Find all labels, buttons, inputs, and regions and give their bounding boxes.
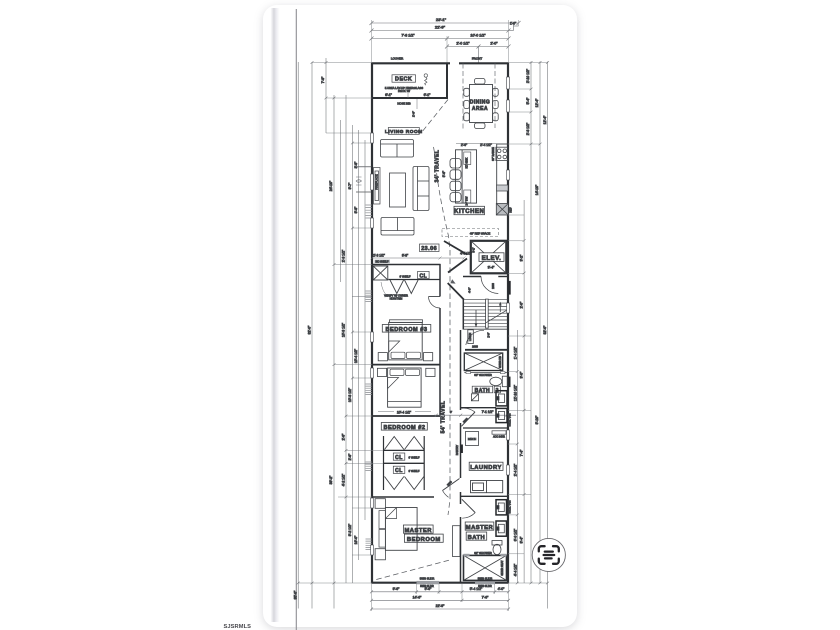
svg-text:12'-4": 12'-4" xyxy=(535,98,539,107)
wall above bath2 shower xyxy=(465,349,508,351)
left dim tick marks xyxy=(297,61,354,584)
svg-text:23.06: 23.06 xyxy=(421,246,437,252)
hall dim line at 258 xyxy=(371,257,466,260)
laundry label box xyxy=(469,462,503,470)
kitchen counter right xyxy=(496,144,498,215)
svg-text:2'-4 1/2": 2'-4 1/2" xyxy=(514,463,518,476)
svg-text:2668: 2668 xyxy=(462,416,469,423)
svg-text:7'-9": 7'-9" xyxy=(321,76,325,84)
sliding door fills on bottom wall xyxy=(417,581,440,584)
svg-text:60" SHOWER: 60" SHOWER xyxy=(474,373,491,377)
svg-text:2'-10 1/2": 2'-10 1/2" xyxy=(526,68,530,83)
svg-text:4'-0": 4'-0" xyxy=(468,287,472,293)
svg-text:23'-1": 23'-1" xyxy=(436,17,447,22)
ref space dashed xyxy=(442,229,499,237)
elevator entry chamfer walls xyxy=(444,241,467,273)
svg-text:BEDROOM #2: BEDROOM #2 xyxy=(384,425,426,431)
bedroom2 label box xyxy=(381,423,427,431)
bedroom3 door arc xyxy=(429,297,441,309)
svg-text:LOUVER: LOUVER xyxy=(391,57,404,61)
svg-text:MASTER: MASTER xyxy=(404,528,432,534)
svg-text:8'-8": 8'-8" xyxy=(402,254,408,258)
linen closet xyxy=(468,330,474,344)
travel arrow head xyxy=(450,279,455,283)
svg-text:30" RANGE: 30" RANGE xyxy=(491,147,495,161)
svg-text:2'-0": 2'-0" xyxy=(520,301,524,309)
laundry bottom wall xyxy=(461,495,509,497)
svg-text:82'-0": 82'-0" xyxy=(308,325,312,334)
svg-text:BATH: BATH xyxy=(475,388,491,394)
bed3 nightstands xyxy=(378,353,387,361)
dining chairs left xyxy=(464,88,470,96)
dining area dashed window wall left xyxy=(462,64,464,131)
elevator room walls xyxy=(471,241,507,273)
bed2 pillows xyxy=(390,369,404,375)
stair hall left wall xyxy=(462,299,464,330)
svg-text:5050 SLDR: 5050 SLDR xyxy=(478,584,492,588)
svg-text:LAUNDRY: LAUNDRY xyxy=(470,465,502,471)
travel dashed diagonal to master door xyxy=(376,560,449,579)
svg-text:DECK: DECK xyxy=(395,77,412,83)
svg-text:24" DW: 24" DW xyxy=(465,196,469,205)
svg-text:2668: 2668 xyxy=(472,345,478,349)
closet back wall xyxy=(388,279,440,281)
svg-text:2'-6": 2'-6" xyxy=(412,111,416,117)
svg-text:22'-9": 22'-9" xyxy=(436,604,445,608)
master bed fold xyxy=(385,508,396,519)
svg-text:5050 SLDR: 5050 SLDR xyxy=(420,584,434,588)
stair down arrow xyxy=(475,310,477,327)
deck bottom wall xyxy=(372,97,448,99)
svg-text:FRONT: FRONT xyxy=(472,57,482,61)
CL label box (hall closet) xyxy=(418,271,430,278)
leader line from shower box to note xyxy=(381,282,387,296)
23.06 label box xyxy=(420,244,440,252)
hall door arc to stairs xyxy=(481,276,498,293)
master dresser on corridor wall xyxy=(453,526,461,557)
media console left wall xyxy=(374,168,381,205)
svg-text:SHWR HD: SHWR HD xyxy=(499,356,502,368)
svg-text:AREA: AREA xyxy=(472,106,488,112)
svg-text:14'-10": 14'-10" xyxy=(535,184,539,195)
svg-text:BATH: BATH xyxy=(468,535,486,541)
svg-text:8'-10": 8'-10" xyxy=(535,415,539,424)
master bed nightstand bottom xyxy=(375,549,385,560)
kitchen label box xyxy=(454,206,485,214)
fridge xyxy=(496,204,508,216)
svg-text:39'-2": 39'-2" xyxy=(329,475,333,484)
master bath door arc xyxy=(462,499,475,512)
wall bed3/bed2 xyxy=(372,364,441,366)
bath2 shower xyxy=(464,353,502,371)
master bath vanity 2 xyxy=(496,521,507,536)
bed2 footline xyxy=(388,401,422,403)
master toilet xyxy=(492,541,502,555)
shower top wall stubs xyxy=(464,554,470,557)
svg-text:4'-4 1/2": 4'-4 1/2" xyxy=(514,563,518,576)
svg-text:12'-10 1/2": 12'-10 1/2" xyxy=(514,384,518,401)
top dimension line 23'-1" xyxy=(370,21,521,25)
top dimension line 2'-0 1/2" / 2'-0" xyxy=(445,45,511,63)
svg-text:3'-2": 3'-2" xyxy=(472,247,476,252)
svg-text:BEDROOM: BEDROOM xyxy=(407,537,441,543)
stair treads (horizontal) xyxy=(464,300,508,327)
sofa right xyxy=(413,167,429,211)
sheet border line xyxy=(295,9,297,630)
dining area dashed window wall right xyxy=(494,64,496,129)
ladder window ticks outside left wall xyxy=(366,205,373,550)
bed2 nightstands xyxy=(377,368,386,376)
dining chairs right xyxy=(493,88,499,96)
window symbols on left wall xyxy=(371,133,374,555)
svg-text:2'-8 1/2": 2'-8 1/2" xyxy=(526,122,530,135)
svg-text:6'-0 1/2": 6'-0 1/2" xyxy=(514,528,518,541)
island dw box xyxy=(464,190,471,203)
scan fold shadow band xyxy=(271,8,280,622)
svg-text:3'-4": 3'-4" xyxy=(488,266,496,270)
corridor dim line xyxy=(434,414,516,417)
svg-text:9'-2 1/2": 9'-2 1/2" xyxy=(348,523,352,536)
elevator X xyxy=(471,241,507,273)
bed3 fold xyxy=(389,341,400,352)
dining table xyxy=(470,85,493,123)
range xyxy=(496,147,508,160)
top dimension line 22'-9" xyxy=(370,23,519,33)
svg-text:ACC 24HR: ACC 24HR xyxy=(493,436,505,439)
svg-text:6' SHELF: 6' SHELF xyxy=(399,275,410,279)
svg-text:10'-4 1/2": 10'-4 1/2" xyxy=(354,348,358,363)
svg-text:NO SHELF: NO SHELF xyxy=(376,259,389,263)
svg-text:7'-4": 7'-4" xyxy=(520,449,524,457)
right dim tick marks xyxy=(516,61,549,584)
fireplace squiggle outside left wall xyxy=(356,177,362,185)
svg-text:1'-4 1/2": 1'-4 1/2" xyxy=(514,346,518,359)
corridor angled wall to stairs xyxy=(448,283,464,300)
dining chair top xyxy=(475,79,486,85)
right extension stubs from walls xyxy=(508,63,548,584)
shower entry line xyxy=(464,372,507,374)
left dim stack verticals xyxy=(298,58,365,609)
svg-text:8'-6": 8'-6" xyxy=(442,171,446,177)
master label boxes xyxy=(403,525,433,533)
svg-text:54' TRAVEL: 54' TRAVEL xyxy=(441,401,447,434)
dining chair bottom xyxy=(475,123,486,129)
master shower xyxy=(464,555,507,580)
left dim rotated labels xyxy=(294,76,359,599)
svg-text:6'-1": 6'-1" xyxy=(424,93,432,97)
svg-text:KIT SINK: KIT SINK xyxy=(465,157,469,168)
top dimension line 7'-8 1/2" / 10'-0 1/2" xyxy=(370,37,511,41)
master bed pillows xyxy=(379,511,385,529)
central corridor wall xyxy=(460,330,462,583)
bath2 vanity lower xyxy=(496,408,507,422)
svg-text:CL: CL xyxy=(395,468,403,474)
stair direction break line xyxy=(486,309,508,323)
exterior wall: right xyxy=(507,63,509,584)
bottom dim chain 3 xyxy=(370,608,510,611)
bath2 door leaf and arc xyxy=(461,412,475,426)
MLS watermark text xyxy=(224,624,252,630)
svg-text:62" SHOWER: 62" SHOWER xyxy=(474,551,491,555)
svg-text:9'-7": 9'-7" xyxy=(348,182,352,190)
floor niche square xyxy=(471,394,478,401)
wall bed2/closets xyxy=(372,415,441,417)
svg-text:10'-4 1/2": 10'-4 1/2" xyxy=(397,411,412,415)
svg-text:MASTER: MASTER xyxy=(466,525,494,531)
mech box xyxy=(466,432,479,446)
svg-text:24'-10": 24'-10" xyxy=(329,180,333,191)
island sink box xyxy=(464,152,471,165)
svg-text:3'-2": 3'-2" xyxy=(520,254,524,262)
bedroom3 right wall lower xyxy=(439,308,441,416)
svg-text:DECK W/: DECK W/ xyxy=(398,89,410,93)
bedroom3 label box xyxy=(382,325,431,333)
stair up arrow xyxy=(499,303,501,313)
scan badge circle xyxy=(532,538,565,571)
svg-text:PANTRY: PANTRY xyxy=(455,445,459,456)
dim stub to wall at hall xyxy=(352,295,372,297)
svg-text:22'-9": 22'-9" xyxy=(435,25,446,30)
closet divider wall xyxy=(383,462,424,464)
closet side walls xyxy=(383,436,385,490)
exterior wall: left xyxy=(371,63,373,584)
svg-text:7'-8 1/2": 7'-8 1/2" xyxy=(401,34,415,38)
left extension stubs from walls xyxy=(298,63,383,584)
bath2 label boxes xyxy=(472,386,493,393)
right dim rotated labels xyxy=(514,68,548,576)
bed3 pillows xyxy=(391,352,405,358)
CL box 1 xyxy=(393,453,405,460)
wall: living/bed3 hall xyxy=(372,264,441,266)
window symbols on right wall xyxy=(507,77,510,475)
linen door arc xyxy=(466,330,484,345)
scan badge icon xyxy=(539,546,559,564)
closet bifold up pair xyxy=(385,437,424,450)
svg-text:30x21 VAN: 30x21 VAN xyxy=(508,413,512,426)
thick wall bar laundry xyxy=(461,445,463,454)
master bath label boxes xyxy=(465,522,494,530)
washer dryer xyxy=(471,481,503,493)
bath2 bottom wall xyxy=(461,407,496,409)
svg-text:CL: CL xyxy=(419,273,427,279)
svg-text:7'-6": 7'-6" xyxy=(482,596,490,600)
ceiling fan symbol xyxy=(424,74,427,85)
svg-text:8': 8' xyxy=(450,410,453,414)
top extension lines xyxy=(372,20,519,63)
bedroom3 right wall upper xyxy=(439,264,441,297)
svg-text:HOSE BIB: HOSE BIB xyxy=(397,102,410,106)
svg-text:2'-0": 2'-0" xyxy=(490,42,498,46)
deck right wall xyxy=(446,63,448,99)
bed3 headboard xyxy=(390,320,423,323)
svg-text:10'-0 1/2": 10'-0 1/2" xyxy=(470,34,486,38)
laundry top wall xyxy=(463,427,508,429)
svg-text:2'-6": 2'-6" xyxy=(348,453,352,461)
svg-text:3'-0": 3'-0" xyxy=(520,371,524,379)
svg-text:2'-0": 2'-0" xyxy=(487,332,491,337)
stair center rail xyxy=(486,299,489,328)
svg-text:1'-0": 1'-0" xyxy=(510,22,516,26)
svg-text:2'-0 1/2": 2'-0 1/2" xyxy=(456,42,470,46)
exterior wall: top xyxy=(372,62,509,64)
svg-text:14'-6": 14'-6" xyxy=(413,596,422,600)
bed2 fold xyxy=(388,378,399,389)
svg-text:6'-1": 6'-1" xyxy=(385,93,393,97)
svg-text:9'-6": 9'-6" xyxy=(393,587,401,591)
bifold doors into bedroom3 xyxy=(390,280,418,294)
loveseat bottom xyxy=(381,218,414,236)
master bed body xyxy=(385,508,417,551)
svg-text:2668: 2668 xyxy=(446,479,453,486)
master top wall xyxy=(372,496,434,498)
closet shelf wall 1 xyxy=(383,449,424,451)
exterior wall: bottom xyxy=(372,582,509,584)
loveseat top xyxy=(381,140,414,158)
master bath vanity 1 xyxy=(496,500,507,515)
svg-text:5'-4": 5'-4" xyxy=(526,97,530,105)
svg-text:6' SHELF: 6' SHELF xyxy=(408,469,419,473)
svg-text:5050 SLDR: 5050 SLDR xyxy=(420,577,434,581)
coffee table xyxy=(390,173,406,207)
svg-text:KITCHEN: KITCHEN xyxy=(454,209,484,215)
living room label box xyxy=(388,128,419,135)
svg-text:16'-0": 16'-0" xyxy=(354,535,358,544)
svg-text:7'-1 1/2": 7'-1 1/2" xyxy=(482,410,494,414)
stair hall top wall with door opening xyxy=(463,276,481,278)
svg-text:CL: CL xyxy=(395,455,403,461)
svg-text:HDR/TRIM: HDR/TRIM xyxy=(390,297,403,301)
svg-text:10'-3 1/2": 10'-3 1/2" xyxy=(348,387,352,402)
island stools xyxy=(450,159,461,202)
bottom dim chain 1 xyxy=(370,590,510,593)
elevator label box xyxy=(479,253,504,262)
CL box 2 xyxy=(393,466,405,473)
svg-text:6' SHELF: 6' SHELF xyxy=(408,456,419,460)
svg-text:12'-4": 12'-4" xyxy=(543,115,547,124)
svg-text:ELEV.: ELEV. xyxy=(482,255,502,262)
master bed nightstand top xyxy=(375,499,385,509)
laundry shelf xyxy=(492,431,506,434)
master bedroom door arc xyxy=(443,479,460,491)
svg-text:3'-8": 3'-8" xyxy=(354,161,358,169)
svg-text:82'-0": 82'-0" xyxy=(543,325,547,334)
svg-text:30x21 VAN: 30x21 VAN xyxy=(508,500,512,513)
kitchen island xyxy=(456,150,477,203)
svg-text:REF: REF xyxy=(509,207,513,213)
stair landing wall xyxy=(463,328,507,330)
svg-text:2'-3 1/2": 2'-3 1/2" xyxy=(373,254,385,258)
bed3 body xyxy=(389,322,423,360)
wall cabinet dark xyxy=(497,185,509,191)
svg-text:BEDROOM #3: BEDROOM #3 xyxy=(386,327,428,333)
svg-text:8'-4": 8'-4" xyxy=(520,536,524,544)
svg-text:85'-0": 85'-0" xyxy=(294,590,298,599)
svg-text:FIREPLACE: FIREPLACE xyxy=(375,174,379,190)
svg-text:2'-3 1/2": 2'-3 1/2" xyxy=(342,249,346,262)
svg-text:48" REF SPACE: 48" REF SPACE xyxy=(470,232,491,236)
svg-text:LIVING ROOM: LIVING ROOM xyxy=(385,129,423,135)
svg-text:2'-6": 2'-6" xyxy=(342,433,346,441)
svg-text:MECH: MECH xyxy=(468,437,476,441)
svg-text:10'-3 1/2": 10'-3 1/2" xyxy=(342,322,346,337)
deck label box xyxy=(392,75,416,82)
bottom extension verticals xyxy=(372,583,509,611)
bath2 vanity upper xyxy=(496,391,507,406)
corner shower X box xyxy=(373,266,388,280)
svg-text:4'-2 1/2": 4'-2 1/2" xyxy=(342,473,346,486)
svg-text:SHWR SEAT: SHWR SEAT xyxy=(500,560,504,576)
closet bifold down pair xyxy=(385,477,424,490)
bath2 toilet xyxy=(490,376,508,387)
travel dashed path upper xyxy=(422,100,451,516)
bottom dim chain 2 xyxy=(370,599,510,602)
right dim stack verticals xyxy=(517,62,547,609)
svg-text:DINING: DINING xyxy=(470,100,491,106)
svg-text:2668: 2668 xyxy=(491,283,495,289)
paper card xyxy=(263,5,577,627)
bed2 body xyxy=(388,368,422,407)
svg-text:8'-3": 8'-3" xyxy=(354,206,358,214)
svg-text:4'-0": 4'-0" xyxy=(498,587,506,591)
